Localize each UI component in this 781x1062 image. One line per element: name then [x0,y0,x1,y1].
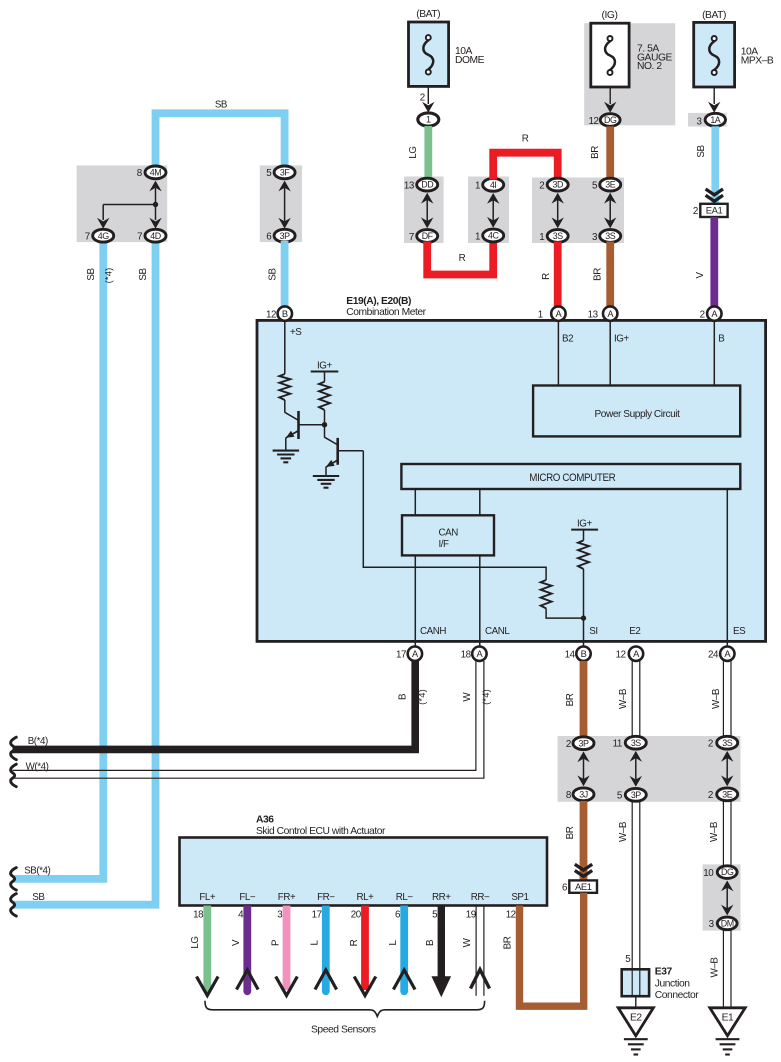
svg-text:EA1: EA1 [706,206,723,217]
svg-text:B: B [718,334,725,345]
svg-text:1: 1 [426,115,431,125]
svg-text:BR: BR [565,693,576,706]
break symbol SB [11,894,17,917]
label BR [502,936,513,949]
arrow down into 4G [97,218,109,229]
wire E37 to E2 ground [635,996,637,1008]
svg-text:DG: DG [721,867,734,877]
svg-text:W–B: W–B [618,821,629,842]
label CANL [485,626,510,637]
svg-text:(*4): (*4) [104,268,114,284]
A36 pin label W [471,892,490,903]
wire R 4I to 3D [493,153,558,180]
ground Q1 emitter [273,451,300,463]
wire LG FL+ [203,906,211,993]
wire W-B ES to 3S [723,661,731,737]
connector 3J pin 8 [566,788,594,801]
meter pin 13 A [588,306,618,320]
label B2 [562,334,573,345]
svg-text:SB: SB [32,892,45,903]
svg-text:3E: 3E [605,180,615,190]
svg-text:1: 1 [538,310,543,321]
chevron splice above EA1 [706,189,723,201]
wire SB 4D down-left [13,241,156,905]
A36 pin label P [278,892,296,903]
label (*4) [481,689,491,705]
A36 pin number 12 [506,910,516,921]
svg-text:4I: 4I [490,180,497,190]
svg-text:W–B: W–B [710,957,721,978]
wire V EA1 to meter [710,217,718,307]
label (BAT) [416,9,440,20]
wire SB 4G down-left [13,241,104,879]
A36 pin number 19 [466,910,476,921]
wire R 3S to meter [554,242,562,308]
wire fuse to DG [609,87,611,104]
chevron splice above AE1 [575,864,592,876]
CAN I/F box [402,515,494,555]
svg-text:BR: BR [593,268,604,281]
meter pin 18 A [461,647,487,661]
A36 pin number 3 [277,910,283,921]
svg-text:19: 19 [466,910,476,921]
break symbol W(*4) [11,764,17,787]
svg-text:W: W [462,937,473,947]
arrow into 1A [708,102,720,113]
svg-text:SB(*4): SB(*4) [24,866,50,877]
svg-text:17: 17 [312,910,322,921]
connector DD pin 13 [404,178,438,191]
micro computer box [401,464,740,489]
connector 3P pin 6 [266,229,295,242]
svg-text:DOME: DOME [455,55,485,66]
label SB on 4D wire [138,268,149,281]
label ES [733,626,746,637]
connector block 3P/3J/3S/3P/3S/3E gray box [558,736,741,802]
wire SB 1A to EA1 [711,126,719,204]
svg-text:CAN: CAN [439,528,459,539]
arrow speed sensor FL+ [197,977,219,996]
label L [310,940,321,946]
label SB [32,892,45,903]
svg-text:Speed Sensors: Speed Sensors [311,1024,376,1035]
svg-text:SB: SB [267,268,278,281]
junction connector E37 [622,969,649,996]
svg-text:A36: A36 [256,815,274,826]
junction dot SI node [581,615,586,620]
break symbol SB(*4) [11,868,17,891]
svg-text:IG+: IG+ [577,519,592,530]
wire R3 to SI node [546,608,583,618]
connector 1A pin 3 [697,113,726,127]
svg-text:1: 1 [475,181,480,192]
arrow speed sensor RL- [393,970,415,990]
label B(*4) [28,736,48,747]
ground E1 [710,1008,745,1036]
svg-text:Power Supply Circuit: Power Supply Circuit [595,409,681,420]
svg-text:E37: E37 [655,966,673,977]
svg-text:E1: E1 [722,1013,734,1024]
svg-text:2: 2 [708,739,713,750]
svg-text:DG: DG [604,115,617,125]
wire W-B E2 to 3S [632,661,640,737]
svg-text:SB: SB [696,145,707,158]
label Combination Meter [346,307,426,318]
svg-text:18: 18 [193,910,204,921]
connector AE1 pin 6 [562,880,597,893]
connector 3S pin 2 [708,736,738,749]
connector 3P pin 2 [566,737,594,750]
label W(*4) [26,761,49,772]
arrow speed sensor RL+ [354,977,376,996]
arrow into connector 1 [422,102,434,113]
label (*4) on 4G wire [104,268,114,284]
svg-text:SB: SB [138,268,149,281]
svg-text:3P: 3P [280,231,290,241]
svg-text:Combination Meter: Combination Meter [346,307,426,318]
wire B RR+ [438,906,445,979]
connector 4C pin 1 [475,229,504,242]
label 10A MPX-B [741,47,774,67]
A36 pin label R [357,892,375,903]
svg-text:18: 18 [461,650,472,661]
connector 3D pin 2 [539,178,568,191]
wire L RL- [400,906,408,996]
fuse block GAUGE gray box [584,23,675,125]
wire B to power supply [713,322,715,386]
wire ES internal [726,489,728,650]
wire IG+ to power supply [609,322,611,386]
label W [462,692,473,702]
wire BR 3S to meter [606,242,614,308]
label W-B [709,821,720,842]
svg-text:E2: E2 [629,626,640,637]
connector 3S pin 3 [592,230,621,243]
connector 4I pin 1 [475,178,504,191]
svg-text:3J: 3J [579,789,587,799]
ground symbol E2 [624,1039,648,1054]
double arrow 3P-3J [577,751,589,786]
wire to 4G [103,205,155,221]
label R [349,939,360,946]
svg-text:2: 2 [539,180,544,191]
svg-text:LG: LG [190,936,201,948]
connector 3E pin 5 [592,178,621,191]
A36 pin label V [239,892,256,903]
svg-text:3E: 3E [722,789,732,799]
A36 pin number 5 [432,910,438,921]
connector 3E pin 2 [708,788,738,801]
wire W-B 3P to E37 [632,802,640,997]
label R [541,273,552,280]
svg-text:AE1: AE1 [575,882,592,893]
label L [388,940,399,946]
wire BR DG to 3E [606,126,614,178]
svg-text:SB: SB [86,268,97,281]
svg-text:B: B [282,309,288,319]
label +S [290,327,302,338]
svg-text:B: B [425,939,436,946]
svg-text:CANH: CANH [420,626,446,637]
svg-text:BR: BR [590,146,601,159]
wire SI [583,569,585,650]
A36 pin label B [432,892,451,903]
meter pin 2 A [700,306,722,320]
connector block 3F/3P gray box [260,165,302,242]
svg-text:3P: 3P [631,790,641,800]
power IG+ label [311,361,339,382]
label W-B [710,957,721,978]
svg-text:(*4): (*4) [417,689,427,705]
wire R RL+ [361,906,369,991]
label LG [408,146,419,158]
connector 3S pin 1 [539,230,568,243]
label W-B [618,688,629,709]
meter pin 12 B [266,306,292,320]
label B [718,334,725,345]
svg-text:12: 12 [506,910,516,921]
double arrow 4I-4C [487,193,499,228]
label E2 [629,626,640,637]
svg-text:12: 12 [616,650,626,661]
A36 pin label L [317,892,335,903]
combination meter E19(A) E20(B) box [257,320,766,641]
svg-text:14: 14 [565,650,576,661]
label (BAT) [702,10,726,21]
fuse 10A MPX-B [694,22,735,87]
svg-text:B: B [397,693,408,700]
label BR [565,826,576,839]
A36 pin label LG [199,892,216,903]
double arrow 3D-3S [552,193,564,228]
transistor Q2 [325,437,364,476]
skid control ECU A36 box [180,838,548,906]
connector DG pin 12 [589,114,621,127]
svg-text:LG: LG [408,146,419,158]
label LG [190,936,201,948]
meter pin 24 A [708,647,735,661]
connector block 4M/4G/4D gray box [77,165,168,242]
arrow up into 4M [149,181,161,205]
label SB(*4) [24,866,50,877]
svg-text:4D: 4D [150,231,160,241]
arrow speed sensor FR+ [276,977,298,996]
wire LG [424,126,432,178]
svg-text:Junction: Junction [655,979,690,990]
fuse 7.5A GAUGE NO.2 [591,23,629,87]
connector 4D pin 7 [137,229,166,242]
svg-text:RR−: RR− [471,892,490,903]
connector 3F pin 5 [266,166,295,179]
svg-text:W(*4): W(*4) [26,761,49,772]
connector block 3D/3S/3E/3S gray box [532,178,624,244]
label BR [593,268,604,281]
svg-text:3S: 3S [631,738,641,748]
double arrow 3F-3P [278,181,290,229]
resistor R4 [578,540,589,569]
label CANH [420,626,446,637]
svg-text:R: R [459,253,466,264]
resistor R2 [319,382,330,410]
svg-text:7: 7 [85,231,90,242]
svg-text:13: 13 [404,180,415,191]
double arrow 3E-3S [604,193,616,228]
label SB on 4G wire [86,268,97,281]
label SI [589,626,597,637]
label R [459,253,466,264]
svg-text:IG+: IG+ [614,334,629,345]
wire R2 to node [324,410,326,438]
svg-text:DD: DD [421,180,433,190]
wire B2 to power supply [557,322,559,386]
label 7.5A GAUGE NO.2 [637,44,673,73]
wire BR SP1 to AE1 [520,893,584,1006]
speed sensors brace [205,1001,485,1017]
arrow speed sensor RR+ [431,976,451,997]
label SB [215,100,228,111]
arrow speed sensor RR- [471,970,490,989]
svg-text:10: 10 [703,868,714,879]
svg-text:2: 2 [693,206,698,217]
svg-text:2: 2 [700,310,705,321]
wire W CANL down-left [13,661,484,778]
label BR [590,146,601,159]
label IG+ [614,334,629,345]
wire BR 3J to AE1 [580,801,588,880]
double arrow DG-DM [721,881,733,916]
wire Q2 collector to resistor R3 [363,451,546,580]
label B [425,939,436,946]
svg-text:3S: 3S [553,231,563,241]
svg-text:E19(A), E20(B): E19(A), E20(B) [346,296,411,307]
wire SB 3P to meter [281,241,289,307]
svg-text:FL−: FL− [239,892,256,903]
label E19(A), E20(B) [346,296,411,307]
svg-text:1: 1 [539,232,544,243]
label R [522,133,529,144]
wire CANH [414,555,416,650]
connector EA1 pin 2 [693,204,728,217]
svg-text:24: 24 [708,650,719,661]
svg-text:Connector: Connector [655,990,699,1001]
fuse 10A DOME [409,22,449,86]
svg-text:4M: 4M [150,168,161,178]
meter pin 1 A [538,306,566,320]
svg-text:Skid Control ECU with Actuator: Skid Control ECU with Actuator [256,826,386,837]
svg-text:I/F: I/F [439,539,450,550]
A36 pin number 6 [395,910,401,921]
connector 1 [418,113,439,126]
svg-text:3S: 3S [605,231,615,241]
svg-text:13: 13 [588,310,599,321]
svg-text:B: B [581,649,587,659]
transistor Q1 [285,411,325,451]
wire P FR+ [283,906,291,991]
wire V FL- [243,906,251,996]
connector DM pin 3 [709,917,738,930]
svg-text:R: R [522,133,529,144]
label W-B [711,688,722,709]
wire W-B 3E to DG [723,802,731,867]
svg-text:4C: 4C [488,231,499,241]
svg-text:DF: DF [422,231,434,241]
svg-text:DM: DM [721,919,734,929]
svg-text:BR: BR [502,936,513,949]
wire W-B DM to E1 [723,930,731,1008]
label V [695,272,706,279]
svg-text:(BAT): (BAT) [702,10,726,21]
svg-text:R: R [541,273,552,280]
svg-text:12: 12 [266,310,276,321]
svg-text:NO. 2: NO. 2 [637,61,662,72]
label A36 [256,815,274,826]
meter pin 12 A [616,647,644,661]
svg-text:RL+: RL+ [357,892,375,903]
svg-text:3S: 3S [722,738,732,748]
A36 pin label BR [511,892,528,903]
svg-text:(*4): (*4) [481,689,491,705]
wire SB 4M to 3F [156,113,285,166]
svg-text:12: 12 [589,116,599,127]
arrow speed sensor FR- [315,970,337,990]
A36 pin number 20 [351,910,362,921]
svg-text:3F: 3F [280,168,290,178]
svg-text:B2: B2 [562,334,573,345]
svg-text:2: 2 [708,790,713,801]
svg-text:11: 11 [613,739,622,750]
svg-text:2: 2 [420,92,425,103]
A36 pin number 18 [193,910,204,921]
svg-text:MICRO COMPUTER: MICRO COMPUTER [529,472,615,484]
svg-text:BR: BR [565,826,576,839]
resistor R3 [541,580,552,608]
wire R1 to Q1 [284,400,286,413]
break symbol B(*4) [11,737,17,760]
arrow down into 4D [149,205,161,229]
junction dot base node [322,422,327,427]
svg-text:CANL: CANL [485,626,510,637]
svg-text:V: V [695,272,706,279]
svg-text:FR−: FR− [317,892,335,903]
arrow speed sensor FL- [237,970,259,990]
wire MC to CAN I/F right [479,489,481,515]
double arrow DD-DF [421,193,433,228]
connector DF pin 7 [409,230,438,243]
wire fuse to connector 1 [427,86,429,104]
label W [462,937,473,947]
ground Q2 emitter [313,476,339,488]
label Skid Control ECU with Actuator [256,826,386,837]
label (*4) [417,689,427,705]
svg-text:17: 17 [396,650,406,661]
wire fuse to 1A [713,87,715,104]
svg-text:SI: SI [589,626,597,637]
svg-text:W: W [462,692,473,702]
svg-text:7: 7 [409,232,414,243]
wire BR SI to 3P [580,661,588,737]
svg-text:+S: +S [290,327,302,338]
svg-text:FR+: FR+ [278,892,296,903]
connector 4M pin 8 [137,166,166,179]
label BR [565,693,576,706]
double arrow 3S-3P [630,751,642,787]
svg-text:(BAT): (BAT) [416,9,440,20]
svg-text:R: R [349,939,360,946]
svg-text:V: V [231,939,242,946]
meter pin 17 A [396,647,422,661]
svg-text:RL−: RL− [396,892,414,903]
svg-text:3P: 3P [579,738,589,748]
